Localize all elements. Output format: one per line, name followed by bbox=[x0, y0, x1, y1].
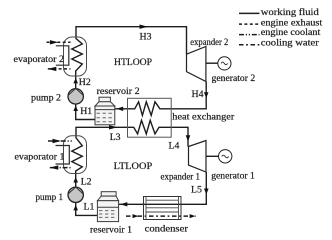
svg-text:expander 1: expander 1 bbox=[161, 171, 201, 182]
svg-text:HTLOOP: HTLOOP bbox=[114, 57, 153, 68]
svg-text:pump 1: pump 1 bbox=[36, 192, 64, 203]
svg-text:L3: L3 bbox=[110, 132, 121, 143]
svg-text:H4: H4 bbox=[192, 89, 204, 100]
svg-text:L5: L5 bbox=[191, 184, 202, 195]
svg-text:evaporator 2: evaporator 2 bbox=[14, 54, 65, 65]
svg-text:H3: H3 bbox=[140, 32, 152, 43]
svg-text:evaporator 1: evaporator 1 bbox=[15, 152, 65, 163]
svg-text:L2: L2 bbox=[81, 176, 92, 187]
svg-text:generator 1: generator 1 bbox=[211, 170, 255, 181]
svg-text:expander 2: expander 2 bbox=[190, 37, 228, 48]
svg-text:H2: H2 bbox=[79, 77, 91, 88]
svg-text:LTLOOP: LTLOOP bbox=[114, 161, 153, 172]
svg-text:generator 2: generator 2 bbox=[212, 73, 256, 84]
svg-text:L4: L4 bbox=[169, 141, 180, 152]
svg-text:condenser: condenser bbox=[145, 223, 189, 234]
svg-text:H1: H1 bbox=[80, 106, 92, 117]
svg-text:pump 2: pump 2 bbox=[31, 93, 61, 104]
svg-text:heat exchanger: heat exchanger bbox=[172, 111, 235, 122]
svg-text:reservoir 2: reservoir 2 bbox=[97, 86, 140, 97]
svg-text:cooling water: cooling water bbox=[261, 37, 320, 48]
svg-text:L1: L1 bbox=[84, 202, 95, 213]
svg-text:reservoir 1: reservoir 1 bbox=[90, 224, 132, 235]
